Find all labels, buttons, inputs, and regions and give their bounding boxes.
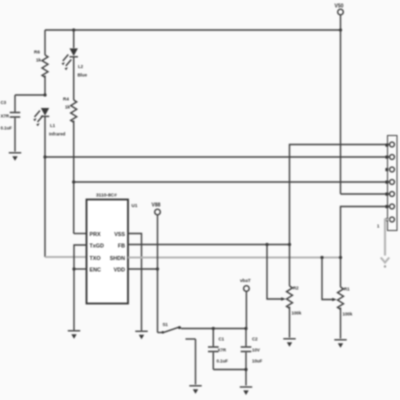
svg-text:VSS: VSS (114, 232, 125, 238)
svg-text:C2: C2 (252, 337, 258, 342)
svg-text:V88: V88 (152, 203, 161, 209)
wire ENC (74, 268, 87, 270)
svg-text:100k: 100k (292, 311, 302, 316)
svg-text:Infrared: Infrared (49, 132, 66, 137)
wire node C to connector pin4 (74, 181, 390, 183)
wire connector pin6 to R1 (341, 207, 390, 258)
svg-text:TXO: TXO (90, 256, 101, 262)
wire R6 to node A (44, 76, 46, 96)
svg-text:10V: 10V (252, 348, 260, 353)
junction SHDN pot (339, 256, 342, 259)
wire pin7 to gray ground (385, 220, 390, 256)
wire to PRX (74, 233, 87, 235)
wire V50 to connector pin5 (341, 193, 390, 195)
svg-text:1k: 1k (65, 105, 71, 110)
emission arrows (35, 111, 41, 118)
junction VDD (156, 267, 159, 270)
svg-text:X7R: X7R (1, 114, 10, 119)
wire R4 to node C (73, 121, 75, 234)
supply V88 (152, 203, 161, 333)
wire switch to vbat (181, 328, 246, 330)
resistor R4 (63, 57, 77, 122)
svg-text:R1: R1 (344, 287, 350, 292)
wire node B to connector pin2 (45, 156, 390, 158)
wire node A to C3 (15, 94, 45, 96)
svg-text:SHDN: SHDN (110, 256, 125, 262)
svg-text:3110-8C#: 3110-8C# (96, 193, 117, 199)
wire TXO gray net (45, 256, 87, 258)
svg-text:X7R: X7R (218, 348, 227, 353)
capacitor C2 (241, 329, 263, 370)
node VCC top rail (45, 28, 342, 31)
junction R2 top (288, 243, 291, 246)
wire VDD (128, 268, 158, 270)
LED L2 Blue (62, 30, 88, 78)
connector J1 (377, 136, 397, 231)
junction at V50 (339, 28, 342, 31)
svg-text:R2: R2 (293, 286, 299, 291)
op IC U1 box (87, 193, 138, 304)
wire L1 to node B (44, 117, 46, 257)
resistor R6 (34, 30, 48, 77)
ground under switch (189, 386, 201, 394)
svg-text:S1: S1 (163, 322, 169, 327)
svg-text:L2: L2 (78, 64, 84, 69)
svg-text:U1: U1 (132, 203, 138, 208)
wire connector pin1 to R2 (290, 145, 390, 245)
ground under VSS (135, 331, 147, 339)
svg-text:V50: V50 (335, 4, 344, 10)
node C junction (72, 180, 75, 183)
wire V50 down (340, 15, 342, 194)
ground under TXGD (68, 331, 80, 339)
svg-text:C1: C1 (219, 337, 225, 342)
potentiometer R1 (322, 258, 353, 339)
svg-text:1: 1 (377, 224, 380, 229)
wire C1 bottom to C2 bottom (213, 370, 246, 386)
ground under R1 (334, 340, 346, 348)
potentiometer R2 (267, 245, 302, 338)
junction at LED branch top (72, 28, 75, 31)
wire SHDN gray net (128, 256, 341, 258)
capacitor C1 (208, 329, 228, 370)
svg-text:10uF: 10uF (252, 359, 263, 364)
wire top rail (45, 29, 341, 31)
node B junction (43, 155, 46, 158)
supply vbat (240, 278, 251, 329)
svg-text:0.1uF: 0.1uF (217, 359, 229, 364)
wire V88 down to switch (157, 215, 159, 333)
switch throw 2 (186, 338, 196, 340)
ground under R2 (283, 339, 295, 347)
switch S1 (158, 322, 196, 385)
svg-text:FB: FB (118, 243, 125, 249)
junction C2/vbat (244, 327, 247, 330)
wire TXGD to ground (74, 245, 87, 330)
svg-text:ENC: ENC (90, 267, 101, 273)
svg-text:0.1uF: 0.1uF (1, 126, 13, 131)
junction SHDN wiper (320, 256, 323, 259)
junction C1 (212, 327, 215, 330)
svg-text:L1: L1 (50, 123, 56, 128)
svg-text:R4: R4 (63, 97, 69, 102)
svg-text:100k: 100k (343, 312, 353, 317)
node A junction (43, 93, 46, 96)
ground under C3 (9, 153, 21, 161)
wire FB (128, 244, 290, 246)
svg-text:TxGD: TxGD (90, 243, 104, 249)
ground gray under connector (381, 258, 389, 268)
supply V50 (335, 4, 344, 195)
svg-text:PRX: PRX (90, 232, 101, 238)
LED L1 Infrared (33, 108, 65, 137)
wire VSS to ground (128, 234, 142, 331)
ground under C2 (240, 387, 252, 395)
junction ENC (72, 267, 75, 270)
junction FB wiper (265, 243, 268, 246)
svg-text:vbaT: vbaT (240, 278, 251, 283)
capacitor C3 (1, 95, 21, 152)
svg-text:VDD: VDD (114, 267, 125, 273)
svg-text:C3: C3 (1, 100, 7, 105)
svg-text:Blue: Blue (78, 73, 88, 78)
junction cap bottoms (244, 368, 247, 371)
svg-text:R6: R6 (34, 50, 40, 55)
svg-text:1k: 1k (36, 58, 42, 63)
